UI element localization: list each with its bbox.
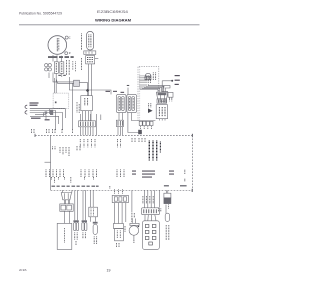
line labels (175, 75, 180, 85)
auger motor column (165, 190, 167, 193)
compressor run terminal (65, 52, 68, 55)
wire mains pair down (54, 78, 56, 93)
labels above connector C (115, 190, 123, 195)
electronic control board U1 (156, 105, 167, 119)
icemaker connector small (113, 224, 123, 229)
arrow label (148, 103, 150, 107)
wire labels band A left (53, 146, 81, 156)
svg-text:R: R (69, 52, 71, 55)
wire tag marks above line2 (52, 177, 94, 183)
wires into control connector (140, 84, 158, 92)
wire labels band A right (132, 138, 145, 143)
run capacitor C1 (87, 31, 94, 50)
dashed separator line 2 (51, 189, 193, 191)
starter label column (81, 58, 83, 70)
wire timer bottom stubs (82, 111, 84, 121)
wire capacitor down b (90, 64, 92, 96)
terminal block lower (60, 204, 73, 211)
start relay body (60, 62, 64, 74)
wire capacitor down a (88, 64, 90, 96)
inverter box outline (53, 93, 69, 108)
overload protector (54, 62, 58, 74)
svg-text:E23BC69KS4: E23BC69KS4 (97, 10, 128, 14)
svg-text:WIRING DIAGRAM: WIRING DIAGRAM (95, 19, 131, 23)
connector arrow marker (148, 108, 153, 113)
cord label below (31, 118, 41, 119)
wire label right of connector C (131, 213, 133, 222)
bus line lower (138, 120, 155, 122)
wire labels band A under connector B (118, 139, 121, 147)
connector C block (112, 195, 128, 202)
wire drop left c (65, 109, 67, 118)
bullet terminal col 2 (82, 190, 84, 220)
terminal board body (143, 221, 160, 250)
wire stub mid (100, 115, 102, 121)
wire labels band A under connector A (80, 139, 95, 147)
header rule (19, 24, 200, 26)
wire compressor to relay (48, 73, 50, 79)
defrost thermostat (145, 73, 151, 76)
cord junction block (45, 111, 48, 114)
wire stub right of capacitor bar (95, 58, 98, 60)
wire labels band B left cluster (46, 170, 64, 178)
wire pills down (118, 113, 120, 121)
wire cord drops (42, 113, 44, 117)
wire cord lines (30, 108, 66, 110)
dashed separator line 1 (35, 134, 193, 136)
line stub with node (162, 80, 172, 82)
wire plug to terminal block (63, 200, 65, 204)
freezer compartment dashed boundary (138, 67, 159, 121)
capacitor terminal bar (84, 51, 96, 55)
wire door harness to bus (128, 113, 142, 133)
wire stub above pills (127, 88, 129, 95)
wire drop left b (62, 113, 64, 131)
header model number (97, 10, 128, 14)
wire vertical x72.5 (72, 83, 74, 129)
boundary side labels (184, 170, 186, 174)
start relay contacts (45, 64, 48, 67)
power cord plug trapezoid (61, 193, 71, 200)
timer label column (76, 102, 78, 113)
svg-text:19: 19 (107, 268, 111, 272)
compressor start terminal (65, 36, 68, 39)
wire control board drops (158, 119, 160, 121)
auger label cols (165, 225, 167, 240)
wire labels above dashed line left (32, 129, 73, 133)
wire connector C down (114, 203, 116, 224)
board edge connectors row (139, 121, 142, 125)
left rail stub (45, 161, 51, 163)
left rail below line1 (50, 135, 52, 190)
power plug P1 (25, 105, 27, 114)
run capacitor label (81, 34, 83, 51)
control connector pins (157, 99, 167, 103)
wire labels band B middle cluster (81, 170, 97, 178)
ground lug dark blob (138, 130, 142, 134)
wire drop left d (58, 116, 60, 124)
cord junction label (45, 119, 50, 120)
harness connector group (pills) (117, 94, 127, 112)
wire right of connector C (131, 190, 133, 212)
svg-text:Publication No. 5995544729: Publication No. 5995544729 (19, 12, 62, 16)
relay label column (66, 60, 68, 75)
labels above pills (106, 91, 125, 93)
wire bus line 2 (56, 79, 74, 83)
wire labels band B right rows (132, 171, 174, 178)
bullet terminal col 1 (74, 190, 76, 220)
wire stubs below line2 left (61, 190, 63, 192)
rail tick marks (163, 86, 165, 89)
junction box J2 (74, 80, 80, 86)
control board connector (trapezoid) (156, 92, 167, 99)
neutral stub (162, 90, 168, 92)
header publication number (19, 12, 62, 16)
connector A block (79, 121, 96, 127)
terminal labels row above line2 (52, 185, 187, 187)
wire connector B pins down (117, 127, 119, 135)
water valve body (129, 226, 139, 236)
footer revision (19, 268, 27, 272)
defrost timer box (81, 96, 93, 111)
svg-text:2/16: 2/16 (19, 268, 27, 272)
power cord body (57, 223, 72, 249)
bullet terminal col 3 with inline block (89, 190, 91, 207)
separator end tick right (191, 134, 193, 137)
header title WIRING DIAGRAM (95, 19, 131, 23)
fan wires into terminal board (144, 215, 146, 221)
compressor M1 (48, 36, 67, 55)
wire run at y90 (69, 77, 111, 94)
harness labels above control (140, 76, 150, 84)
separator end tick left (34, 134, 36, 137)
footer page number (107, 268, 111, 272)
terminal board connector (142, 208, 160, 215)
thermostat label (152, 73, 154, 81)
power cord note text (30, 102, 39, 105)
icemaker body (115, 229, 124, 241)
wire connector A pins up (80, 114, 82, 121)
PTC starter block (86, 56, 95, 64)
wire drop left a (55, 111, 57, 131)
connector B block (116, 120, 123, 126)
door switch box (168, 92, 173, 97)
control board part number vertical text (149, 141, 156, 161)
wires to terminal board (143, 190, 145, 208)
wire bus line 1 (53, 79, 74, 82)
compressor label (48, 56, 74, 58)
wire right rail (161, 81, 163, 92)
wire left of terminal board (159, 190, 161, 207)
terminal wire tags (142, 196, 144, 204)
svg-text:C: C (69, 36, 71, 39)
wire connector A pins down (80, 127, 82, 135)
connector row labels (141, 126, 152, 129)
icemaker side label (124, 226, 126, 232)
wire block to cord (63, 211, 65, 223)
light switch box (160, 95, 164, 102)
dashed right boundary (191, 135, 193, 190)
wire J2 to timer with diamond (79, 82, 87, 95)
ground connector dark blob (50, 110, 53, 115)
wire labels band B center-right cluster (117, 170, 124, 178)
